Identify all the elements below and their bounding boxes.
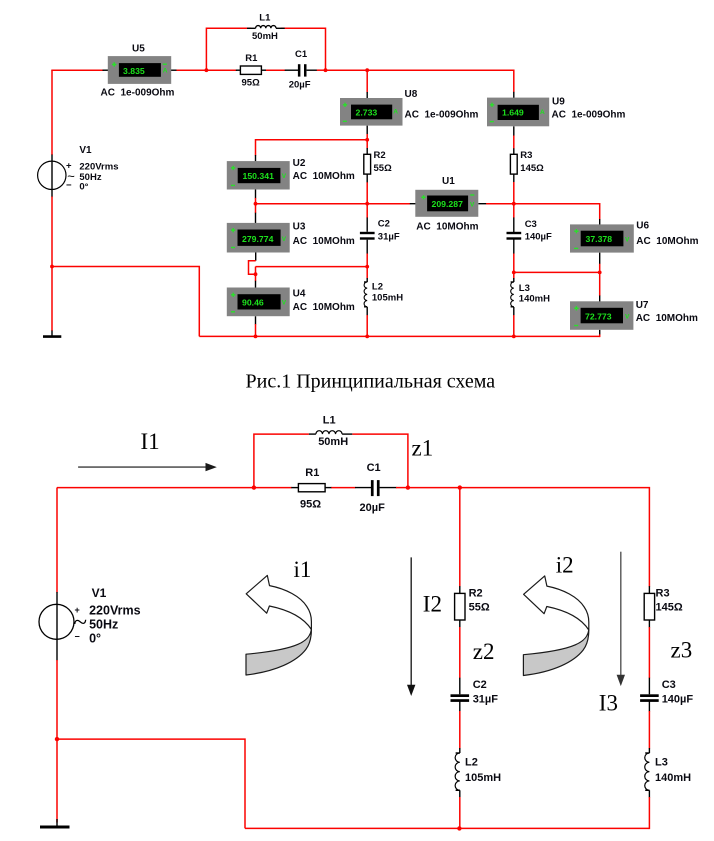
wire top rail node B to U9 corner [326,70,514,92]
svg-text:140µF: 140µF [525,231,552,242]
wire L2b to bottom rail [459,790,461,828]
svg-text:55Ω: 55Ω [374,163,393,174]
label z1 [412,436,434,461]
wire node G to U6 corner [514,204,600,225]
svg-text:C3: C3 [662,679,676,691]
svg-text:AC 1e-009Ohm: AC 1e-009Ohm [101,88,175,99]
node D (U2 rail meets R2 branch) [365,138,369,142]
wire U2 bottom to node F [255,190,257,204]
svg-text:U7: U7 [636,300,649,311]
wire below V1b [56,660,58,739]
capacitor C3 [507,219,553,242]
svg-text:0°: 0° [89,632,101,646]
svg-text:L1: L1 [259,12,271,23]
wire z2 branch R2b [459,488,461,594]
wire node N to U7 [599,272,601,301]
node E (middle rail at R2 bottom) [365,202,369,206]
svg-text:0°: 0° [79,182,88,193]
svg-text:V1: V1 [79,145,92,156]
node K (L2 on bottom rail) [365,335,369,339]
svg-text:105mH: 105mH [372,292,403,303]
svg-text:279.774: 279.774 [242,234,274,244]
caption Fig.1 [246,370,496,392]
svg-text:z3: z3 [671,638,693,663]
svg-text:72.773: 72.773 [585,311,612,321]
wire node B1 to node C1n [408,487,460,489]
svg-text:31µF: 31µF [378,231,400,242]
wire node A to R1 [206,69,240,71]
svg-text:R2: R2 [469,588,483,600]
inductor L1 [247,12,285,42]
svg-text:V: V [282,173,287,180]
svg-text:AC 10MOhm: AC 10MOhm [636,313,698,324]
svg-text:55Ω: 55Ω [469,602,490,614]
svg-text:L1: L1 [323,414,336,426]
wire lower-mid rail (to C2 bottom node) [256,267,368,282]
label i1 [294,557,312,582]
svg-text:U5: U5 [132,44,145,55]
wire bottom rail b [245,827,649,829]
node H (U3 jog junction) [254,272,258,276]
svg-text:2.733: 2.733 [356,107,378,117]
svg-text:U8: U8 [405,89,418,100]
wire top rail b (left to node A1) [57,487,254,489]
wire R2b to C2b [459,620,461,694]
node F (U2 bottom junction) [254,202,258,206]
svg-text:−: − [66,180,72,191]
svg-text:L2: L2 [465,757,478,769]
svg-text:AC 1e-009Ohm: AC 1e-009Ohm [405,109,479,120]
loop arrow i1 [246,575,311,675]
node A1 (L1b loop left) [252,485,256,489]
wire U8 to node D [366,126,368,149]
wire U9 to R3 [513,126,515,154]
wire node M to U6 branch [514,271,600,273]
svg-text:1.649: 1.649 [502,108,524,118]
node I (L2 top junction) [365,265,369,269]
svg-text:−: − [75,632,80,642]
wire C2b to L2b [459,701,461,753]
wire L2 leads [366,267,368,337]
node A (L1/R1 split left) [205,68,209,72]
wire R1b to C1b [325,487,371,489]
svg-text:L2: L2 [372,282,383,293]
inductor L3 (bottom) [645,753,691,790]
wire U4 bottom to bottom rail [255,316,257,336]
multimeter U9 (ammeter) [487,97,626,127]
svg-text:50mH: 50mH [318,436,348,448]
svg-text:U9: U9 [552,97,565,108]
label i2 [556,553,574,578]
resistor R3 (bottom) [644,588,683,621]
inductor L3 [511,282,550,307]
svg-text:20µF: 20µF [360,502,386,514]
svg-text:i2: i2 [556,553,574,578]
wire C3 branch (node G to M) [513,204,515,273]
wire left vertical top (V1 to top rail) [51,70,53,155]
svg-text:C2: C2 [473,679,487,691]
svg-text:U6: U6 [636,221,649,232]
wire R3 to node G [513,174,515,204]
capacitor C3 (bottom) [640,679,693,706]
svg-text:140mH: 140mH [655,772,691,784]
label z2 [473,639,495,664]
wire L3b to bottom rail [648,790,650,829]
multimeter U8 (ammeter) [340,89,479,126]
wire return rail b [57,739,245,828]
loop arrow i2 [523,576,588,676]
svg-text:C1: C1 [295,49,308,60]
svg-text:AC 10MOhm: AC 10MOhm [293,171,355,182]
node V1b bottom [55,737,59,741]
wire U5 to node A [171,69,207,71]
svg-text:U3: U3 [293,222,306,233]
node M (C3/L3 junction) [512,271,516,275]
svg-text:20µF: 20µF [289,80,311,91]
capacitor C2 (bottom) [451,679,499,706]
svg-text:95Ω: 95Ω [300,499,321,511]
svg-text:C2: C2 [378,218,390,229]
svg-text:AC 10MOhm: AC 10MOhm [416,221,478,232]
wire node C1n to right corner [460,488,650,587]
wire R3b to C3b [648,620,650,694]
arrow I1 [78,463,217,471]
resistor R2 (bottom) [455,588,490,621]
wire U3 branch from node F [255,204,257,223]
svg-text:I2: I2 [423,591,442,616]
resistor R1 [240,53,261,88]
multimeter U4 (voltmeter) [227,288,355,317]
capacitor C1 (bottom) [360,462,386,514]
svg-text:U4: U4 [293,289,306,300]
label I1 [141,429,160,454]
svg-text:R2: R2 [374,150,386,161]
voltage source V1 [38,145,119,193]
svg-text:V: V [282,300,287,307]
wire bottom schematic left vertical [56,488,58,593]
resistor R1 (bottom) [298,467,325,511]
svg-text:105mH: 105mH [465,772,501,784]
wire to ground b [56,739,58,822]
wire L1 bypass loop [206,28,325,70]
wire into R2 [366,148,368,154]
svg-text:C3: C3 [525,219,537,230]
arrow I3 [617,552,625,686]
wire left vertical below V1 [51,197,53,267]
svg-text:U1: U1 [442,176,455,187]
inductor L2 (bottom) [455,753,501,790]
node at V1 bottom rail [50,265,54,269]
svg-text:140mH: 140mH [519,294,550,305]
wire bottom rail [199,335,599,337]
multimeter U1 (voltmeter) [415,176,478,232]
svg-text:90.46: 90.46 [242,297,264,307]
svg-text:50mH: 50mH [252,31,278,42]
inductor L1 (bottom) [309,414,352,448]
wire L1b bypass loop [254,434,408,488]
svg-text:C1: C1 [367,462,381,474]
wire U2 top rail [256,140,368,162]
resistor R3 [510,150,544,174]
wire U7 bottom to bottom rail [599,330,601,337]
label z3 [671,638,693,663]
arrow I2 [407,557,415,696]
wire V1b pins (black) [56,592,58,661]
svg-text:145Ω: 145Ω [520,163,544,174]
wire node C down to U8 [366,70,368,98]
svg-text:A: A [163,67,168,74]
svg-text:V: V [470,202,475,209]
node B1 (L1b loop right) [406,485,410,489]
ground (bottom schematic) [40,819,70,827]
wire V1 return rail [52,267,199,337]
resistor R2 [364,150,392,174]
wire z3 branch R3b [648,586,650,593]
wire node A1 to R1b [254,487,299,489]
svg-text:AC 10MOhm: AC 10MOhm [293,236,355,247]
multimeter U5 (ammeter) [101,44,175,99]
svg-text:z2: z2 [473,639,495,664]
svg-text:L3: L3 [655,757,668,769]
wire top rail to U5 [51,69,108,71]
node N (below U6) [598,271,602,275]
svg-text:V1: V1 [92,586,107,600]
wire U9 stub top [513,92,515,98]
svg-text:R1: R1 [305,467,319,479]
svg-text:R3: R3 [520,150,532,161]
node L (L3 on bottom rail) [512,335,516,339]
svg-text:U2: U2 [293,158,306,169]
inductor L2 [364,282,403,307]
wire left vertical to ground [51,267,53,332]
multimeter U3 (voltmeter) [227,222,355,253]
svg-text:95Ω: 95Ω [242,78,261,89]
ground (top schematic) [43,331,61,337]
svg-text:150.341: 150.341 [243,171,275,181]
svg-text:140µF: 140µF [662,694,694,706]
svg-text:145Ω: 145Ω [656,602,683,614]
wire V1 pins (black through source) [51,155,53,198]
wire R2 to node E [366,174,368,203]
svg-text:V: V [625,314,630,321]
wire U3 bottom jog [249,253,256,275]
svg-text:V: V [625,236,630,243]
wire middle rail F to U1 [256,203,416,205]
label I2 [423,591,442,616]
svg-text:A: A [393,109,398,116]
svg-text:L3: L3 [519,283,530,294]
svg-text:AC 10MOhm: AC 10MOhm [293,302,355,313]
wire U4 stub [255,281,257,288]
label I3 [599,690,618,715]
multimeter U2 (voltmeter) [227,158,355,190]
svg-text:V: V [282,236,287,243]
svg-text:R1: R1 [245,53,258,64]
multimeter U7 (voltmeter) [570,300,698,330]
node J (U4 on bottom rail) [254,335,258,339]
wire U6 bottom to node N [599,253,601,273]
svg-text:A: A [540,109,545,116]
multimeter U6 (voltmeter) [570,221,699,253]
capacitor C2 [360,218,400,242]
svg-text:I3: I3 [599,690,618,715]
svg-text:AC 1e-009Ohm: AC 1e-009Ohm [552,109,626,120]
svg-text:Рис.1 Принципиальная схема: Рис.1 Принципиальная схема [246,370,496,392]
capacitor C1 [289,49,311,91]
voltage source V1 (bottom schematic) [39,586,141,646]
svg-text:i1: i1 [294,557,312,582]
svg-text:z1: z1 [412,436,434,461]
svg-text:31µF: 31µF [473,694,499,706]
wire C2 branch (node E to L2) [366,204,368,267]
wire C1b to node B1 [380,487,409,489]
wire L3 leads [513,272,515,336]
svg-text:3.835: 3.835 [123,66,145,76]
node B (L1/C1 join) [324,68,328,72]
wire U1 to node G [478,203,514,205]
node C1n (z2 branch tap) [458,485,462,489]
wire R1 to C1 [261,69,298,71]
svg-text:50Hz: 50Hz [89,618,118,632]
node G (C3 branch tap) [512,202,516,206]
svg-text:R3: R3 [656,588,670,600]
svg-text:I1: I1 [141,429,160,454]
svg-text:209.287: 209.287 [432,199,464,209]
node L2b bottom [457,826,461,830]
svg-text:220Vrms: 220Vrms [89,604,140,618]
wire C3b to L3b [648,701,650,753]
node C (U8 branch tap) [365,68,369,72]
wire C1 to node B [307,69,326,71]
svg-text:37.378: 37.378 [586,234,613,244]
svg-text:AC 10MOhm: AC 10MOhm [636,236,698,247]
